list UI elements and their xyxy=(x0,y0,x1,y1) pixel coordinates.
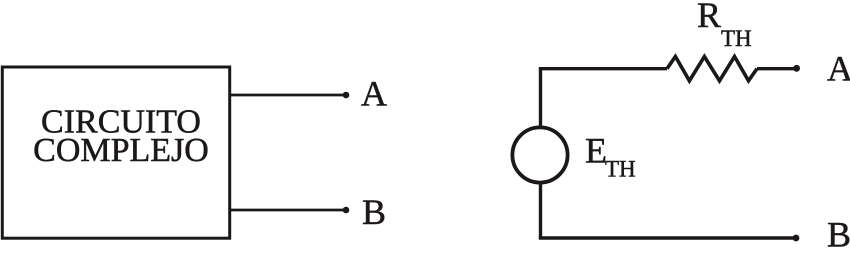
svg-text:COMPLEJO: COMPLEJO xyxy=(33,132,209,169)
complex circuit box xyxy=(2,67,229,238)
wire vertical source bottom xyxy=(539,183,542,238)
wire box to terminal A xyxy=(230,94,346,97)
svg-text:A: A xyxy=(827,49,850,89)
svg-text:E: E xyxy=(585,131,607,171)
wire resistor to terminal A right xyxy=(757,67,797,70)
terminal dot A right xyxy=(793,65,800,72)
wire box to terminal B xyxy=(230,209,346,212)
voltage source E_TH circle xyxy=(512,127,567,182)
wire bottom horizontal to terminal B right xyxy=(539,236,796,239)
svg-text:A: A xyxy=(361,74,387,114)
resistor R_TH zigzag xyxy=(667,57,757,81)
svg-text:TH: TH xyxy=(721,26,752,51)
terminal dot B left xyxy=(343,207,350,214)
terminal dot B right xyxy=(793,235,800,242)
wire top horizontal to resistor xyxy=(539,67,667,70)
svg-text:TH: TH xyxy=(605,157,636,182)
svg-text:R: R xyxy=(697,0,721,35)
terminal dot A left xyxy=(343,92,350,99)
wire vertical source top xyxy=(539,69,542,127)
svg-text:B: B xyxy=(827,214,850,254)
svg-text:B: B xyxy=(362,192,386,232)
